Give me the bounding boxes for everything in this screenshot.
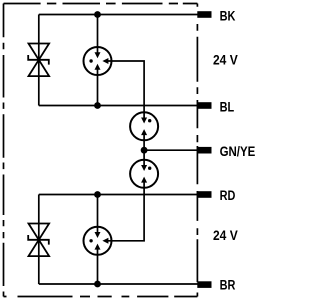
wire: top GDT lower stem: [97, 69, 99, 106]
device enclosure (dashed border): [4, 4, 198, 297]
svg-text:24 V: 24 V: [213, 227, 238, 243]
wire: RD rail: [39, 194, 198, 196]
gas discharge tube (BK-BL pair): [84, 47, 112, 75]
gas discharge tube (lower longitudinal): [130, 160, 158, 188]
svg-text:BR: BR: [220, 277, 236, 293]
wire: top GDT upper stem: [97, 15, 99, 54]
wire: BL rail: [39, 105, 198, 107]
terminal GN/YE: [197, 143, 255, 159]
svg-text:RD: RD: [220, 188, 236, 204]
terminal BL: [197, 99, 234, 115]
wire: left branch RD to BR: [38, 195, 40, 285]
terminal RD: [197, 188, 235, 204]
gas discharge tube (upper longitudinal): [130, 112, 158, 140]
terminal BK: [197, 8, 235, 24]
wire: stem between longitudinal GDTs: [143, 134, 145, 166]
wire: GN/YE tap: [144, 149, 197, 151]
wire: top GDT right electrode: [108, 61, 144, 118]
wire: bottom GDT lower stem: [97, 249, 99, 284]
suppressor diode (RD-BR): [28, 224, 49, 257]
suppressor diode (BK-BL): [28, 44, 49, 77]
svg-text:GN/YE: GN/YE: [220, 143, 256, 159]
node: junction GN/YE tap: [141, 147, 148, 154]
svg-text:BK: BK: [220, 8, 236, 24]
wire: lower longitudinal GDT to bottom GDT electrode: [108, 182, 144, 241]
node: junction RD rail / bottom GDT: [94, 191, 101, 198]
node: junction BK rail / top GDT: [94, 11, 101, 18]
wire: BR rail: [39, 283, 198, 285]
node: junction BR rail / bottom GDT: [94, 281, 101, 288]
node: junction BL rail / top GDT: [94, 102, 101, 109]
wire: bottom GDT upper stem: [97, 195, 99, 233]
svg-text:24 V: 24 V: [213, 52, 238, 68]
terminal BR: [197, 277, 235, 293]
wire: BK rail (top): [39, 14, 198, 16]
gas discharge tube (RD-BR pair): [84, 227, 112, 255]
wire: left branch BK to BL: [38, 15, 40, 106]
svg-text:BL: BL: [220, 99, 235, 115]
